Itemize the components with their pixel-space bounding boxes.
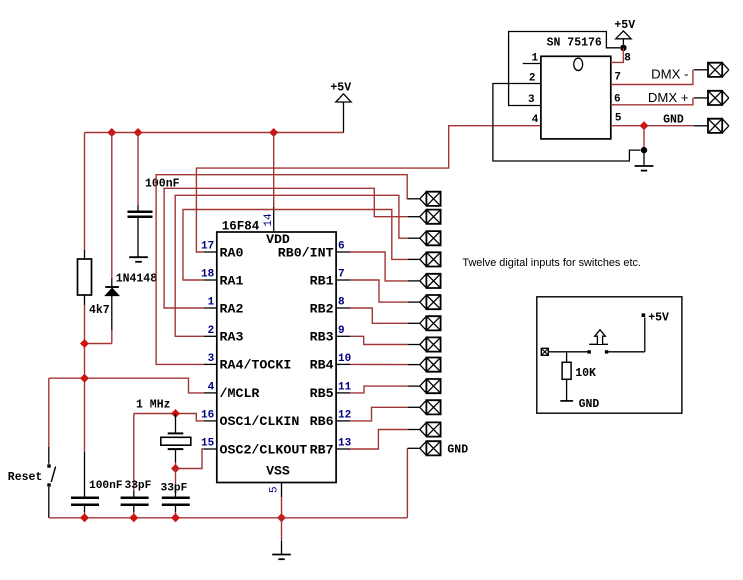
- svg-text:18: 18: [201, 269, 215, 281]
- svg-text:OSC2/CLKOUT: OSC2/CLKOUT: [220, 442, 308, 457]
- svg-text:RB0/INT: RB0/INT: [278, 245, 334, 260]
- svg-text:10: 10: [338, 353, 351, 365]
- svg-text:14: 14: [263, 213, 275, 227]
- svg-text:Reset: Reset: [8, 471, 43, 484]
- svg-text:2: 2: [208, 325, 215, 337]
- svg-text:10K: 10K: [575, 367, 596, 380]
- svg-text:5: 5: [269, 486, 281, 493]
- svg-text:4: 4: [208, 382, 215, 394]
- svg-text:RA4/TOCKI: RA4/TOCKI: [220, 358, 292, 373]
- svg-text:RB4: RB4: [310, 358, 334, 373]
- svg-text:12: 12: [338, 410, 351, 422]
- svg-text:DMX -: DMX -: [651, 67, 688, 82]
- svg-text:RB7: RB7: [310, 442, 334, 457]
- svg-text:RB6: RB6: [310, 414, 334, 429]
- svg-text:+5V: +5V: [648, 311, 669, 324]
- svg-text:16F84: 16F84: [222, 220, 260, 234]
- svg-text:1N4148: 1N4148: [116, 273, 158, 286]
- svg-text:3: 3: [208, 353, 215, 365]
- svg-text:RB2: RB2: [310, 301, 334, 316]
- svg-text:8: 8: [624, 53, 631, 65]
- svg-text:7: 7: [614, 72, 621, 84]
- svg-text:16: 16: [201, 410, 214, 422]
- svg-text:GND: GND: [663, 114, 684, 127]
- svg-text:1: 1: [208, 297, 215, 309]
- svg-text:RB3: RB3: [310, 330, 334, 345]
- svg-text:+5V: +5V: [330, 82, 351, 95]
- svg-text:RA1: RA1: [220, 273, 244, 288]
- svg-text:5: 5: [615, 112, 622, 124]
- svg-text:6: 6: [614, 93, 621, 105]
- svg-text:2: 2: [529, 73, 536, 85]
- svg-text:8: 8: [338, 297, 345, 309]
- svg-text:1: 1: [532, 53, 539, 65]
- svg-text:OSC1/CLKIN: OSC1/CLKIN: [220, 414, 300, 429]
- svg-text:SN 75176: SN 75176: [547, 37, 602, 50]
- svg-text:RA2: RA2: [220, 301, 244, 316]
- svg-text:4: 4: [532, 114, 539, 126]
- svg-text:+5V: +5V: [614, 19, 635, 32]
- svg-text:9: 9: [338, 325, 345, 337]
- svg-text:GND: GND: [579, 398, 600, 411]
- svg-text:RB1: RB1: [310, 273, 334, 288]
- svg-text:11: 11: [338, 382, 352, 394]
- svg-text:33pF: 33pF: [125, 480, 152, 492]
- svg-text:13: 13: [338, 438, 352, 450]
- svg-text:VSS: VSS: [266, 463, 290, 478]
- svg-text:7: 7: [338, 269, 345, 281]
- svg-text:4k7: 4k7: [89, 304, 110, 317]
- svg-text:3: 3: [528, 94, 535, 106]
- svg-text:17: 17: [201, 241, 214, 253]
- svg-text:/MCLR: /MCLR: [220, 386, 260, 401]
- svg-text:RA0: RA0: [220, 245, 244, 260]
- svg-text:15: 15: [201, 438, 215, 450]
- svg-text:RA3: RA3: [220, 330, 244, 345]
- svg-text:33pF: 33pF: [161, 483, 188, 495]
- svg-text:DMX +: DMX +: [648, 90, 689, 105]
- svg-text:100nF: 100nF: [89, 480, 123, 492]
- svg-text:Twelve digital inputs for swit: Twelve digital inputs for switches etc.: [462, 257, 641, 269]
- svg-text:1 MHz: 1 MHz: [136, 399, 171, 412]
- svg-text:RB5: RB5: [310, 386, 334, 401]
- svg-text:6: 6: [338, 241, 345, 253]
- svg-text:GND: GND: [447, 444, 468, 457]
